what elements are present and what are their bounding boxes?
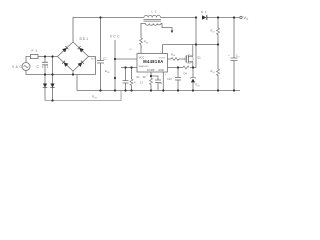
svg-text:F1: F1 [32, 49, 38, 53]
svg-text:D4: D4 [184, 71, 188, 75]
svg-text:7: 7 [165, 75, 167, 77]
svg-text:R1: R1 [137, 76, 141, 79]
svg-text:VCC: VCC [110, 35, 120, 39]
svg-text:+: + [228, 53, 230, 57]
svg-text:IN: IN [107, 72, 110, 74]
svg-text:O: O [238, 56, 240, 58]
svg-text:(+): (+) [91, 57, 95, 61]
svg-text:3: 3 [141, 46, 143, 48]
svg-text:TH: TH [94, 98, 97, 100]
svg-text:BD1: BD1 [80, 37, 89, 41]
svg-text:02: 02 [212, 72, 214, 74]
svg-text:VAC: VAC [12, 65, 23, 69]
svg-text:INH(OLP): INH(OLP) [139, 66, 149, 68]
svg-text:C1: C1 [103, 57, 107, 61]
svg-text:L1: L1 [152, 10, 157, 14]
svg-text:Q1: Q1 [197, 56, 201, 60]
svg-text:05: 05 [173, 55, 175, 57]
svg-text:03: 03 [146, 42, 148, 44]
svg-text:C3: C3 [140, 82, 144, 85]
svg-text:O: O [246, 18, 248, 21]
svg-text:C2: C2 [159, 82, 163, 85]
svg-text:C10: C10 [167, 77, 172, 81]
svg-text:4: 4 [147, 75, 149, 77]
svg-text:D1: D1 [201, 10, 207, 14]
svg-text:R2: R2 [143, 76, 147, 79]
svg-text:M44818A: M44818A [143, 59, 163, 64]
svg-text:C x 1: C x 1 [37, 65, 49, 69]
svg-text:R: R [134, 82, 136, 84]
svg-text:81: 81 [130, 49, 133, 51]
svg-text:06: 06 [197, 85, 199, 87]
svg-text:GND: GND [158, 68, 164, 72]
svg-text:COMP: COMP [147, 68, 155, 72]
svg-text:01: 01 [212, 31, 214, 33]
